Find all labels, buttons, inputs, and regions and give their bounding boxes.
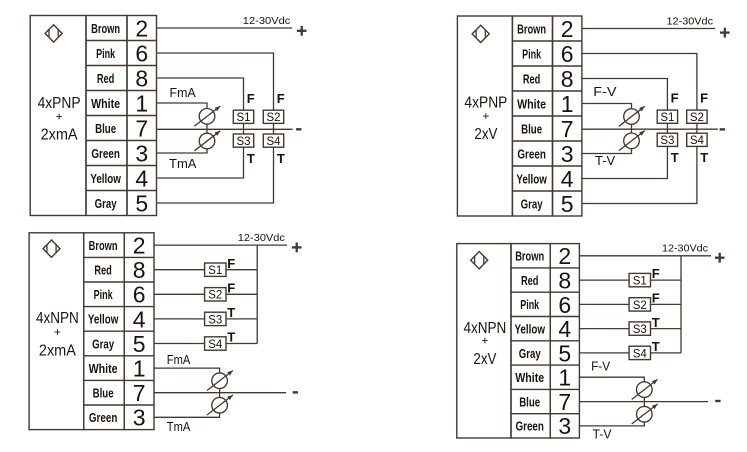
svg-text:Brown: Brown <box>517 22 546 36</box>
switch S2 BL <box>205 288 226 302</box>
svg-text:T: T <box>652 315 660 330</box>
wire switch S2 to supply rail BL <box>226 293 257 295</box>
terminal row BL (4xNPN+2xmA): wire colour Yellow, pin 4 <box>88 306 146 332</box>
label T-V TR <box>595 153 616 168</box>
terminal row TL (4xPNP+2xmA): wire colour Yellow, pin 4 <box>90 165 148 191</box>
wire white pin1 to meter1 BR <box>579 377 644 382</box>
terminal row BL (4xNPN+2xmA): wire colour White, pin 1 <box>89 356 146 382</box>
svg-text:1: 1 <box>133 356 146 382</box>
svg-text:S1: S1 <box>208 265 222 277</box>
svg-text:Pink: Pink <box>522 47 541 61</box>
svg-text:S2: S2 <box>633 300 647 312</box>
switch S2 BR <box>629 298 650 312</box>
connector block BL (4xNPN+2xmA): outer sensor box <box>29 233 84 430</box>
terminal row TL (4xPNP+2xmA): wire colour Gray, pin 5 <box>95 190 149 216</box>
T output label below S3 TL <box>247 151 255 166</box>
switch S1 TR <box>657 110 677 124</box>
wire meter2 to green pin3 TR <box>582 148 632 153</box>
svg-text:S2: S2 <box>266 112 280 124</box>
svg-text:T: T <box>277 151 285 166</box>
svg-text:2xV: 2xV <box>473 351 497 368</box>
wire pink pin6 to S2 TL <box>157 53 274 110</box>
svg-text:S3: S3 <box>660 135 674 147</box>
svg-text:7: 7 <box>558 389 571 415</box>
svg-text:12-30Vdc: 12-30Vdc <box>243 15 291 27</box>
wire meter2 to green pin3 BR <box>579 422 644 426</box>
svg-text:Green: Green <box>89 411 118 425</box>
svg-text:S4: S4 <box>690 135 705 147</box>
meter T-V (analog out) TR <box>619 131 645 151</box>
terminal table BL (4xNPN+2xmA) <box>84 233 154 430</box>
svg-text:F: F <box>652 291 660 306</box>
switch S4 TL <box>263 134 283 148</box>
wire pin to switch S4 BL <box>154 343 205 345</box>
label FmA BL <box>167 352 191 367</box>
wire bus to S4 TR <box>696 129 698 133</box>
svg-text:F: F <box>671 91 679 106</box>
wire S1 to bus TR <box>666 123 668 129</box>
wire S2 to bus TL <box>273 123 275 129</box>
wire switch S3 to supply rail BL <box>226 318 257 320</box>
svg-text:S1: S1 <box>236 112 250 124</box>
terminal row TR (4xPNP+2xV): wire colour Yellow, pin 4 <box>516 166 573 192</box>
plus terminal TL <box>297 26 307 36</box>
sensor symbol (diamond) TL (4xPNP+2xmA) <box>45 25 62 42</box>
terminal row BL (4xNPN+2xmA): wire colour Red, pin 8 <box>94 257 145 283</box>
terminal row TL (4xPNP+2xmA): wire colour Pink, pin 6 <box>96 40 148 66</box>
svg-text:S3: S3 <box>236 136 250 148</box>
svg-text:+: + <box>54 325 61 339</box>
label TmA TL <box>169 156 197 171</box>
svg-text:S4: S4 <box>208 339 223 351</box>
F output label above S1 TL <box>247 91 255 106</box>
sensor type label TL (4xPNP+2xmA) <box>38 95 81 143</box>
wire white pin1 to meter TL <box>157 103 208 109</box>
label T-V BR <box>593 426 612 441</box>
svg-text:8: 8 <box>135 65 148 91</box>
svg-text:FmA: FmA <box>170 85 197 100</box>
svg-text:2: 2 <box>133 233 146 259</box>
supply rail vertical wire BL <box>256 245 258 343</box>
meter T-V (analog out) BR <box>632 404 658 424</box>
svg-text:7: 7 <box>133 380 146 406</box>
svg-text:1: 1 <box>558 365 571 391</box>
svg-text:S1: S1 <box>660 112 674 124</box>
svg-text:TmA: TmA <box>167 419 191 434</box>
minus bus wire (blue pin7) BR <box>579 401 708 403</box>
svg-text:6: 6 <box>133 282 146 308</box>
terminal table TR (4xPNP+2xV) <box>512 16 582 216</box>
svg-text:Blue: Blue <box>93 387 114 401</box>
svg-text:2: 2 <box>561 16 574 42</box>
svg-text:S3: S3 <box>633 324 647 336</box>
sensor type label BR (4xNPN+2xV) <box>463 320 506 368</box>
svg-text:5: 5 <box>135 190 148 216</box>
svg-text:2xmA: 2xmA <box>41 126 79 143</box>
svg-text:1: 1 <box>561 91 574 117</box>
svg-text:8: 8 <box>558 267 571 293</box>
svg-text:T-V: T-V <box>595 153 616 168</box>
svg-text:Pink: Pink <box>96 47 115 61</box>
wire switch S1 to supply rail BL <box>226 269 257 271</box>
svg-text:6: 6 <box>558 292 571 318</box>
meter TmA (analog out) BL <box>207 395 233 415</box>
svg-text:5: 5 <box>133 331 146 357</box>
terminal row BL (4xNPN+2xmA): wire colour Green, pin 3 <box>89 405 146 431</box>
plus terminal BL <box>292 243 302 253</box>
svg-text:7: 7 <box>561 116 574 142</box>
svg-text:Pink: Pink <box>94 288 113 302</box>
terminal row BL (4xNPN+2xmA): wire colour Brown, pin 2 <box>89 233 146 259</box>
wire S3 to yellow pin4 TL <box>157 147 244 178</box>
terminal row TL (4xPNP+2xmA): wire colour Green, pin 3 <box>91 140 148 166</box>
svg-text:Blue: Blue <box>95 122 116 136</box>
svg-text:White: White <box>89 362 118 376</box>
svg-text:Blue: Blue <box>521 122 542 136</box>
switch S1 TL <box>233 110 253 124</box>
wire switch S4 to supply rail BR <box>651 352 682 354</box>
terminal row TR (4xPNP+2xV): wire colour Green, pin 3 <box>517 141 573 167</box>
svg-text:White: White <box>91 97 120 111</box>
terminal row BR (4xNPN+2xV): wire colour Gray, pin 5 <box>519 340 571 366</box>
wire pin to switch S3 BR <box>579 328 629 330</box>
wire bus to meter2 BL <box>219 393 221 398</box>
plus terminal TR <box>720 28 730 38</box>
switch S1 BL <box>205 263 226 277</box>
svg-text:Yellow: Yellow <box>516 172 547 186</box>
svg-text:S4: S4 <box>266 136 281 148</box>
svg-text:T: T <box>227 305 235 320</box>
wire meter1 to minus bus TR <box>631 124 633 129</box>
wire switch S2 to supply rail BR <box>651 303 682 305</box>
sensor symbol (diamond) TR (4xPNP+2xV) <box>472 25 489 42</box>
F output label above S2 TL <box>277 91 285 106</box>
terminal row BL (4xNPN+2xmA): wire colour Pink, pin 6 <box>94 282 146 308</box>
sensor type label BL (4xNPN+2xmA) <box>36 310 79 359</box>
svg-text:TmA: TmA <box>169 156 197 171</box>
switch S4 TR <box>687 133 707 147</box>
wire meter2 to green pin3 TL <box>157 149 208 153</box>
switch S3 TL <box>233 134 253 148</box>
svg-text:6: 6 <box>561 41 574 67</box>
svg-text:2xmA: 2xmA <box>39 342 77 359</box>
connector block BR (4xNPN+2xV): outer sensor box <box>457 244 511 438</box>
svg-text:Red: Red <box>97 72 115 86</box>
terminal row TR (4xPNP+2xV): wire colour Blue, pin 7 <box>521 116 573 142</box>
connector block TR (4xPNP+2xV): outer sensor box <box>457 16 512 216</box>
T output label at S3 BR <box>652 315 660 330</box>
F output label at S1 BR <box>652 266 660 281</box>
svg-text:+: + <box>56 109 63 123</box>
svg-text:+: + <box>482 109 489 123</box>
terminal row BR (4xNPN+2xV): wire colour Green, pin 3 <box>515 413 571 439</box>
wire bus to S3 TL <box>243 129 245 134</box>
svg-text:S1: S1 <box>633 275 647 287</box>
wire bus to meter2 TR <box>631 129 633 133</box>
svg-text:F-V: F-V <box>591 358 610 373</box>
connector block TL (4xPNP+2xmA): outer sensor box <box>30 16 86 216</box>
svg-text:T: T <box>227 330 235 345</box>
wire meter1 to minus bus TL <box>206 124 208 129</box>
meter FmA (analog out) TL <box>194 106 220 126</box>
svg-text:7: 7 <box>135 115 148 141</box>
svg-text:2: 2 <box>135 15 148 41</box>
F output label above S1 TR <box>671 91 679 106</box>
terminal table BR (4xNPN+2xV) <box>511 244 579 438</box>
svg-text:Yellow: Yellow <box>514 322 545 336</box>
terminal row TL (4xPNP+2xmA): wire colour Red, pin 8 <box>97 65 148 91</box>
F output label above S2 TR <box>700 91 708 106</box>
wire S1 to bus TL <box>243 123 245 129</box>
wire bus to S4 TL <box>273 129 275 134</box>
svg-text:+: + <box>481 334 488 348</box>
wire S2 to bus TR <box>696 123 698 129</box>
svg-text:F: F <box>227 281 235 296</box>
wire brown pin2 to +supply BR <box>579 255 711 257</box>
svg-text:T: T <box>671 150 679 165</box>
T output label at S3 BL <box>227 305 235 320</box>
svg-text:Brown: Brown <box>89 239 118 253</box>
svg-text:Gray: Gray <box>92 337 114 351</box>
plus terminal BR <box>715 253 725 263</box>
svg-text:F: F <box>700 91 708 106</box>
T output label below S4 TL <box>277 151 285 166</box>
terminal table TL (4xPNP+2xmA) <box>86 16 157 216</box>
label F-V BR <box>591 358 610 373</box>
svg-text:F: F <box>227 256 235 271</box>
svg-text:Brown: Brown <box>91 22 120 36</box>
minus terminal TL <box>296 128 301 130</box>
wire switch S1 to supply rail BR <box>651 279 682 281</box>
sensor type label TR (4xPNP+2xV) <box>464 95 507 143</box>
supply label 12-30Vdc BL <box>238 232 285 244</box>
wire brown pin2 to +supply TR <box>582 28 715 30</box>
T output label below S4 TR <box>700 150 708 165</box>
terminal row BR (4xNPN+2xV): wire colour Yellow, pin 4 <box>514 316 571 342</box>
minus bus wire (blue pin7) TL <box>157 128 293 130</box>
meter FmA (analog out) BL <box>207 371 233 391</box>
label TmA BL <box>167 419 191 434</box>
wire S4 to gray pin5 TR <box>582 146 697 203</box>
svg-text:T: T <box>652 339 660 354</box>
svg-text:F-V: F-V <box>593 84 617 99</box>
terminal row TR (4xPNP+2xV): wire colour Gray, pin 5 <box>521 191 574 217</box>
wire bus to meter2 TL <box>206 129 208 133</box>
svg-text:Gray: Gray <box>519 347 541 361</box>
svg-text:4: 4 <box>135 165 148 191</box>
terminal row BR (4xNPN+2xV): wire colour Red, pin 8 <box>521 267 571 293</box>
terminal row TR (4xPNP+2xV): wire colour White, pin 1 <box>517 91 573 117</box>
svg-text:3: 3 <box>561 141 574 167</box>
svg-text:4: 4 <box>561 166 574 192</box>
wire pin to switch S1 BR <box>579 279 629 281</box>
F output label at S2 BL <box>227 281 235 296</box>
T output label below S3 TR <box>671 150 679 165</box>
wire switch S3 to supply rail BR <box>651 328 682 330</box>
svg-text:Pink: Pink <box>520 298 539 312</box>
svg-text:S3: S3 <box>208 314 222 326</box>
svg-text:Gray: Gray <box>95 197 117 211</box>
svg-text:Brown: Brown <box>515 250 544 264</box>
F output label at S2 BR <box>652 291 660 306</box>
svg-text:3: 3 <box>135 140 148 166</box>
svg-text:FmA: FmA <box>167 352 191 367</box>
wire pink pin6 to S2 TR <box>582 54 697 111</box>
svg-text:Red: Red <box>94 264 112 278</box>
terminal row BR (4xNPN+2xV): wire colour Brown, pin 2 <box>515 243 571 269</box>
wire white pin1 to meter TR <box>582 104 632 109</box>
svg-text:T-V: T-V <box>593 426 612 441</box>
terminal row BR (4xNPN+2xV): wire colour Pink, pin 6 <box>520 292 571 318</box>
svg-text:5: 5 <box>558 340 571 366</box>
terminal row TL (4xPNP+2xmA): wire colour Brown, pin 2 <box>91 15 148 41</box>
svg-text:2: 2 <box>558 243 571 269</box>
switch S3 BL <box>205 312 226 326</box>
svg-text:8: 8 <box>133 257 146 283</box>
svg-text:F: F <box>277 91 285 106</box>
terminal row BL (4xNPN+2xmA): wire colour Blue, pin 7 <box>93 380 146 406</box>
meter F-V (analog out) BR <box>632 379 658 399</box>
svg-text:White: White <box>515 371 544 385</box>
wire bus to S3 TR <box>666 129 668 133</box>
wire red pin8 to S1 TL <box>157 78 244 110</box>
meter TmA (analog out) TL <box>194 131 220 151</box>
sensor symbol (diamond) BR (4xNPN+2xV) <box>471 252 488 269</box>
svg-text:3: 3 <box>558 413 571 439</box>
T output label at S4 BR <box>652 339 660 354</box>
label FmA TL <box>170 85 197 100</box>
svg-text:1: 1 <box>135 90 148 116</box>
svg-text:5: 5 <box>561 191 574 217</box>
svg-text:S4: S4 <box>633 348 648 360</box>
terminal row BL (4xNPN+2xmA): wire colour Gray, pin 5 <box>92 331 145 357</box>
wire S3 to yellow pin4 TR <box>582 146 668 178</box>
sensor symbol (diamond) BL (4xNPN+2xmA) <box>43 240 60 257</box>
supply label 12-30Vdc TR <box>667 16 714 28</box>
minus terminal BR <box>715 400 720 402</box>
svg-text:4: 4 <box>558 316 571 342</box>
svg-text:2xV: 2xV <box>474 126 498 143</box>
svg-text:Green: Green <box>515 420 544 434</box>
minus bus wire (blue pin7) TR <box>582 128 718 130</box>
svg-text:8: 8 <box>561 66 574 92</box>
switch S3 TR <box>657 133 677 147</box>
wire red pin8 to S1 TR <box>582 79 668 111</box>
wire meter1 to minus bus BR <box>643 397 645 401</box>
svg-text:F: F <box>652 266 660 281</box>
svg-text:White: White <box>517 97 546 111</box>
svg-text:Yellow: Yellow <box>88 313 119 327</box>
terminal row TR (4xPNP+2xV): wire colour Red, pin 8 <box>523 66 574 92</box>
terminal row BR (4xNPN+2xV): wire colour Blue, pin 7 <box>519 389 571 415</box>
svg-text:Yellow: Yellow <box>90 172 121 186</box>
svg-text:F: F <box>247 91 255 106</box>
svg-text:4: 4 <box>133 306 146 332</box>
switch S3 BR <box>629 322 650 336</box>
svg-text:Red: Red <box>523 72 541 86</box>
wire meter2 to green pin3 BL <box>154 413 220 418</box>
terminal row TL (4xPNP+2xmA): wire colour White, pin 1 <box>91 90 148 116</box>
wire pin to switch S2 BL <box>154 293 205 295</box>
wire meter1 to minus bus BL <box>219 388 221 392</box>
F output label at S1 BL <box>227 256 235 271</box>
wire white pin1 to meter1 BL <box>154 368 220 373</box>
wire pin to switch S2 BR <box>579 303 629 305</box>
svg-text:T: T <box>700 150 708 165</box>
svg-text:Blue: Blue <box>519 395 540 409</box>
T output label at S4 BL <box>227 330 235 345</box>
supply rail vertical wire BR <box>680 256 682 353</box>
svg-text:6: 6 <box>135 40 148 66</box>
switch S2 TR <box>687 110 707 124</box>
switch S4 BR <box>629 346 650 360</box>
svg-text:Green: Green <box>91 147 120 161</box>
svg-text:Gray: Gray <box>521 197 543 211</box>
svg-text:S2: S2 <box>208 290 222 302</box>
wire pin to switch S3 BL <box>154 318 205 320</box>
terminal row TL (4xPNP+2xmA): wire colour Blue, pin 7 <box>95 115 148 141</box>
meter F-V (analog out) TR <box>619 106 645 126</box>
switch S1 BR <box>629 273 650 287</box>
svg-text:S2: S2 <box>690 112 704 124</box>
supply label 12-30Vdc TL <box>243 15 291 27</box>
terminal row TR (4xPNP+2xV): wire colour Pink, pin 6 <box>522 41 573 67</box>
svg-text:3: 3 <box>133 405 146 431</box>
wire brown pin2 to +supply BL <box>154 244 287 246</box>
svg-text:T: T <box>247 151 255 166</box>
switch S2 TL <box>263 110 283 124</box>
svg-text:Red: Red <box>521 274 539 288</box>
minus terminal BL <box>293 391 298 393</box>
svg-text:Green: Green <box>517 147 546 161</box>
switch S4 BL <box>205 337 226 351</box>
label F-V TR <box>593 84 617 99</box>
minus bus wire (blue pin7) BL <box>154 392 286 394</box>
minus terminal TR <box>720 128 725 130</box>
wire S4 to gray pin5 TL <box>157 147 274 203</box>
supply label 12-30Vdc BR <box>662 243 708 255</box>
svg-text:12-30Vdc: 12-30Vdc <box>238 232 285 244</box>
wire brown pin2 to +supply TL <box>157 27 293 29</box>
svg-text:12-30Vdc: 12-30Vdc <box>662 243 708 255</box>
terminal row BR (4xNPN+2xV): wire colour White, pin 1 <box>515 365 571 391</box>
wire pin to switch S1 BL <box>154 269 205 271</box>
wire pin to switch S4 BR <box>579 352 629 354</box>
wire bus to meter2 BR <box>643 402 645 407</box>
svg-text:12-30Vdc: 12-30Vdc <box>667 16 714 28</box>
terminal row TR (4xPNP+2xV): wire colour Brown, pin 2 <box>517 16 573 42</box>
wire switch S4 to supply rail BL <box>226 343 257 345</box>
